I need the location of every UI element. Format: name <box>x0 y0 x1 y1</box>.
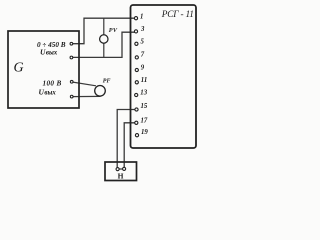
svg-text:Uвых: Uвых <box>40 47 58 56</box>
pin 17 <box>135 121 138 124</box>
wire terminal X4 to PF bottom <box>72 95 101 97</box>
wire PV top stub <box>103 18 105 35</box>
svg-text:7: 7 <box>141 52 145 59</box>
terminal X1 <box>70 42 73 45</box>
wire pin 15 to load H <box>117 110 134 168</box>
pin 11 <box>135 81 138 84</box>
terminal X3 <box>70 80 73 83</box>
pin 7 <box>135 56 138 59</box>
pin 3 <box>134 30 137 33</box>
wire terminal X3 to PF <box>72 82 96 86</box>
pin 13 <box>135 93 138 96</box>
wire tick between H terminals <box>119 168 124 170</box>
voltmeter PV <box>100 35 108 43</box>
pin 9 <box>135 68 138 71</box>
svg-text:17: 17 <box>141 118 148 125</box>
generator G box <box>8 31 79 108</box>
svg-text:15: 15 <box>141 103 148 110</box>
svg-text:19: 19 <box>141 129 148 136</box>
svg-text:3: 3 <box>140 26 145 33</box>
svg-text:1: 1 <box>140 14 143 21</box>
terminal H right <box>123 167 126 170</box>
terminal H left <box>116 168 119 171</box>
pin 5 <box>135 42 138 45</box>
wire PV bottom stub <box>103 43 105 57</box>
svg-text:PF: PF <box>103 78 111 84</box>
frequency meter PF <box>95 86 106 97</box>
device РСГ-11 box <box>131 5 197 148</box>
pin 1 <box>134 17 137 20</box>
svg-text:РСГ - 11: РСГ - 11 <box>161 10 194 20</box>
svg-text:100 В: 100 В <box>43 79 62 87</box>
terminal X4 <box>70 95 73 98</box>
wire terminal X1 to pin 1 <box>72 18 135 44</box>
svg-text:9: 9 <box>141 65 145 72</box>
wire pin 17 to load H <box>124 123 134 167</box>
load H box <box>105 162 137 181</box>
svg-text:PV: PV <box>109 27 118 34</box>
svg-text:11: 11 <box>141 77 147 84</box>
svg-text:Н: Н <box>118 172 124 181</box>
svg-text:G: G <box>14 61 24 76</box>
pin 19 <box>135 134 138 137</box>
pin 15 <box>135 108 138 111</box>
terminal X2 <box>70 56 73 59</box>
svg-text:13: 13 <box>140 90 147 97</box>
svg-text:Uвых: Uвых <box>39 87 57 96</box>
svg-text:5: 5 <box>141 39 145 46</box>
wire terminal X2 to pin 3 <box>72 32 135 57</box>
